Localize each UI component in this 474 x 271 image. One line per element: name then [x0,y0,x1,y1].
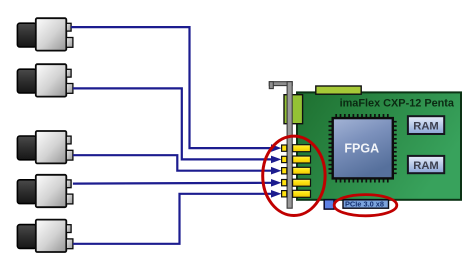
FPGA U1 body [333,118,393,178]
camera CAM2 [17,64,73,96]
svg-text:FPGA: FPGA [344,142,379,156]
svg-text:RAM: RAM [413,160,438,172]
camera CAM4 [17,175,73,207]
RAM 1 [408,116,444,134]
camera CAM5 [17,220,73,252]
wire CAM4 to row4 [73,179,282,187]
red highlight ellipse around CXP connectors [263,136,325,215]
CXP connector pair row5 [282,190,311,197]
CXP connector block (light green) [284,95,303,124]
wire CAM5 to row5 [73,190,282,244]
svg-text:PCIe 3.0 x8: PCIe 3.0 x8 [345,200,384,209]
camera CAM3 [17,131,73,163]
wire CAM1 to row1 [71,27,281,152]
svg-text:imaFlex CXP-12 Penta: imaFlex CXP-12 Penta [340,97,455,109]
CXP connector pair row1 [282,145,311,152]
PCIe edge key (small blue tab) [324,200,334,209]
title imaFlex CXP-12 Penta [340,97,455,109]
bracket bar [287,82,292,209]
PCIe 3.0 x8 edge connector [343,200,389,209]
CXP connector pair row2 [282,156,311,163]
CXP connector pair row3 [282,167,311,174]
FPGA U1 pins [329,114,397,183]
bracket hook [269,82,292,89]
wire CAM2 to row2 [73,88,282,163]
red highlight ellipse around PCIe connector [334,195,397,216]
RAM 2 [408,156,444,173]
svg-text:RAM: RAM [413,120,438,132]
CXP connector pair row4 [282,179,311,186]
camera CAM1 [17,18,73,50]
PCB card [297,92,461,199]
wire CAM3 to row3 [73,155,282,174]
card top tab [316,86,361,94]
